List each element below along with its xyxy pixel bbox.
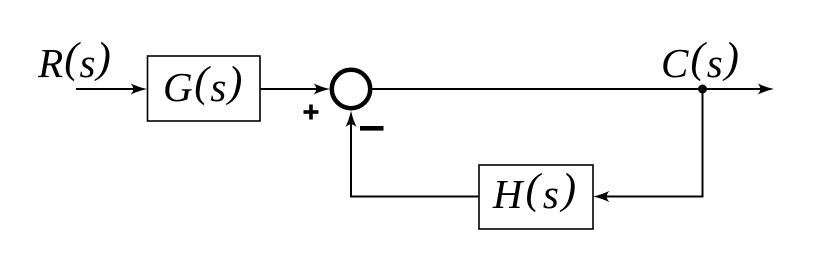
arrowhead output — [758, 83, 775, 94]
svg-text:G(s): G(s) — [163, 59, 244, 110]
wire summing junction to output — [372, 88, 768, 90]
arrowhead into G(s) — [131, 83, 148, 94]
wire G(s) to summing junction — [260, 88, 324, 90]
plus sign — [304, 105, 319, 120]
block G1 box — [148, 56, 261, 121]
wire feedback to H(s) — [599, 196, 704, 198]
wire H(s) to summing junction leftward — [350, 196, 479, 198]
svg-text:H(s): H(s) — [492, 166, 579, 217]
summing junction U1 circle — [332, 70, 370, 108]
svg-text:R(s): R(s) — [37, 35, 112, 86]
node pickoff dot — [698, 85, 707, 94]
svg-text:C(s): C(s) — [661, 35, 741, 86]
wire input R(s) to G(s) — [76, 88, 140, 90]
wire pickoff down — [702, 89, 704, 197]
minus sign — [360, 126, 384, 131]
wire feedback up into summing junction — [350, 114, 352, 198]
arrowhead into summing junction — [314, 83, 331, 94]
arrowhead up into summing junction — [345, 111, 356, 128]
block H1 box — [479, 165, 593, 229]
arrowhead into H(s) — [593, 191, 610, 202]
